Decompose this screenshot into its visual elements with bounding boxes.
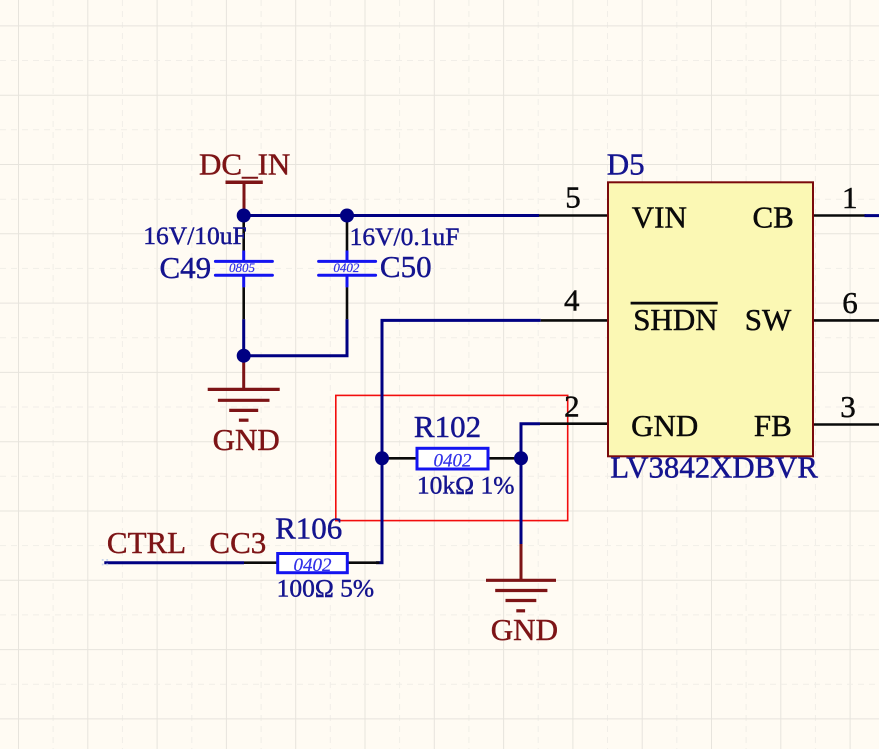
svg-text:16V/10uF: 16V/10uF <box>143 221 246 250</box>
svg-text:SW: SW <box>745 302 792 337</box>
svg-text:DC_IN: DC_IN <box>199 147 290 182</box>
svg-text:FB: FB <box>754 408 792 443</box>
svg-text:GND: GND <box>213 422 280 457</box>
svg-text:CC3: CC3 <box>209 525 266 560</box>
svg-text:0805: 0805 <box>229 260 256 275</box>
svg-text:3: 3 <box>840 389 856 424</box>
svg-text:CTRL: CTRL <box>107 525 186 560</box>
svg-text:16V/0.1uF: 16V/0.1uF <box>350 222 460 251</box>
svg-text:10kΩ 1%: 10kΩ 1% <box>417 471 515 500</box>
svg-text:VIN: VIN <box>632 199 687 234</box>
svg-text:LV3842XDBVR: LV3842XDBVR <box>610 450 818 484</box>
svg-text:R102: R102 <box>414 409 481 444</box>
svg-text:0402: 0402 <box>434 450 473 471</box>
svg-text:0402: 0402 <box>333 260 360 275</box>
svg-text:6: 6 <box>842 285 858 320</box>
svg-text:C50: C50 <box>380 249 432 284</box>
svg-text:SHDN: SHDN <box>633 302 717 337</box>
svg-text:2: 2 <box>564 388 580 423</box>
svg-text:CB: CB <box>753 199 794 234</box>
svg-text:C49: C49 <box>160 250 212 285</box>
svg-text:1: 1 <box>842 180 858 215</box>
svg-text:4: 4 <box>564 283 580 318</box>
svg-text:100Ω 5%: 100Ω 5% <box>277 574 375 603</box>
svg-text:5: 5 <box>565 180 581 215</box>
svg-text:GND: GND <box>631 408 698 443</box>
svg-text:R106: R106 <box>275 511 342 546</box>
svg-text:D5: D5 <box>607 147 645 182</box>
svg-text:GND: GND <box>491 612 558 647</box>
